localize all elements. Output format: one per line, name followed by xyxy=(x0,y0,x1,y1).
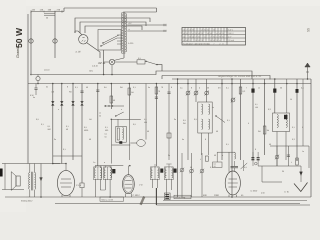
svg-text:50: 50 xyxy=(147,130,149,133)
wire heater run xyxy=(123,54,125,58)
resistor R8 xyxy=(263,126,266,134)
svg-text:Netz: Netz xyxy=(89,70,93,73)
capacitor C9 blob xyxy=(296,89,299,93)
svg-text:a. W.: a. W. xyxy=(76,51,82,54)
IFT1 coil B xyxy=(202,119,203,129)
page number 55 xyxy=(306,28,310,32)
svg-text:280 V: 280 V xyxy=(228,32,234,35)
wire v73 xyxy=(72,84,74,161)
resistor R4 xyxy=(110,96,113,103)
wire v142 xyxy=(145,84,147,140)
wire v129 low xyxy=(128,119,130,160)
wire rect drop xyxy=(111,65,113,75)
wire mains top run xyxy=(64,7,157,9)
antenna symbol xyxy=(305,63,310,67)
svg-text:6,3 V: 6,3 V xyxy=(228,29,233,32)
pilot lamp La xyxy=(79,35,88,44)
tube data table xyxy=(182,28,246,46)
svg-text:50: 50 xyxy=(113,99,115,102)
wire v217 xyxy=(216,152,218,162)
wire bottom mid xyxy=(163,200,307,202)
svg-text:0,5: 0,5 xyxy=(138,57,141,60)
svg-text:300: 300 xyxy=(144,121,147,124)
trimmer CT1 xyxy=(187,79,189,160)
svg-text:U 4012: U 4012 xyxy=(251,190,259,193)
resistor R5 xyxy=(128,88,131,95)
capacitor C7 blob xyxy=(273,89,276,93)
wire v274 xyxy=(274,79,276,113)
wire ground rail xyxy=(28,83,311,85)
wire bottom chassis xyxy=(55,203,300,205)
svg-text:x: x xyxy=(192,32,193,35)
svg-text:Spannungen gem. geg. Chassis: Spannungen gem. geg. Chassis xyxy=(183,43,210,46)
capacitor C3 xyxy=(96,89,99,91)
coil L3 box xyxy=(150,167,159,180)
svg-text:50: 50 xyxy=(105,136,107,139)
speaker LS xyxy=(16,176,20,186)
coil L1 xyxy=(94,168,95,178)
svg-text:8: 8 xyxy=(171,86,172,89)
capacitor blob osc xyxy=(119,141,122,144)
capacitor C8 blob xyxy=(284,115,287,119)
capacitor C2 xyxy=(80,90,83,92)
padder capacitors xyxy=(51,101,54,103)
svg-text:Netz u. 10 W: Netz u. 10 W xyxy=(102,198,114,201)
svg-text:w.b.10: w.b.10 xyxy=(92,65,99,68)
capacitor C13 blob xyxy=(174,169,177,173)
resistor R10 xyxy=(205,156,208,161)
svg-text:100: 100 xyxy=(255,106,258,109)
svg-text:50: 50 xyxy=(89,138,91,141)
wire L4 legs xyxy=(165,179,167,197)
fuse Si1 xyxy=(29,39,33,43)
trimmer bottom B xyxy=(191,153,193,197)
wire IFT1 drops xyxy=(201,133,203,155)
grid cap plates xyxy=(231,165,239,167)
transformer secondary stub a xyxy=(127,24,166,26)
wire mains riser xyxy=(63,8,65,12)
wire h189 xyxy=(2,189,5,191)
wire v253 xyxy=(252,79,254,160)
svg-text:0,1: 0,1 xyxy=(66,125,69,128)
svg-text:50: 50 xyxy=(269,143,271,146)
svg-text:0,1: 0,1 xyxy=(75,86,78,89)
svg-text:0,1: 0,1 xyxy=(105,126,108,129)
wire v97 xyxy=(97,84,99,167)
wire lamp to loop xyxy=(75,31,82,35)
wire lamp to switch xyxy=(87,43,100,58)
boxed label Netz xyxy=(100,197,124,201)
wire transformer top feed xyxy=(140,11,157,13)
tube V2 CL4 xyxy=(57,170,74,195)
wire tap loop 1 xyxy=(75,18,150,33)
capacitor C10 xyxy=(287,146,289,166)
svg-text:50: 50 xyxy=(86,86,88,89)
svg-text:8: 8 xyxy=(67,86,68,89)
terminal riser xyxy=(155,188,157,205)
trimmer CT4 xyxy=(231,98,235,102)
switch S1 levers xyxy=(101,38,117,46)
wire rect left xyxy=(104,61,110,63)
box on v167 xyxy=(167,133,171,138)
svg-text:0,5: 0,5 xyxy=(194,118,197,121)
bottom smudge artifact xyxy=(139,196,145,205)
wire left vertical bus x28 xyxy=(27,14,29,164)
wire v264 xyxy=(264,79,266,155)
band switch cluster xyxy=(104,105,124,107)
wire v82 xyxy=(81,84,83,184)
fuse Si2 xyxy=(53,39,57,43)
svg-text:2: 2 xyxy=(122,131,123,134)
wire v177 xyxy=(177,79,179,197)
wire OT legs xyxy=(29,164,31,173)
svg-text:1M: 1M xyxy=(131,91,134,94)
svg-text:50: 50 xyxy=(290,98,292,101)
wire to rails xyxy=(157,65,162,71)
svg-text:0,1: 0,1 xyxy=(210,166,213,169)
IF transformer T1 box xyxy=(198,102,212,133)
svg-text:8: 8 xyxy=(191,87,192,90)
capacitor pair A xyxy=(251,157,254,158)
can filter xyxy=(137,140,146,147)
wire grid bus xyxy=(172,78,311,80)
capacitor C5 xyxy=(167,91,170,93)
coil L4 xyxy=(165,168,166,178)
wire h145 xyxy=(112,144,131,146)
wire h156 xyxy=(53,155,82,157)
svg-text:b: b xyxy=(222,154,223,157)
wire v297 xyxy=(296,79,298,160)
svg-text:5n: 5n xyxy=(182,138,184,141)
svg-text:20 mA: 20 mA xyxy=(228,39,234,42)
output transformer Tr2 core xyxy=(31,172,33,191)
svg-text:C 4012: C 4012 xyxy=(133,194,141,197)
svg-text:0,5: 0,5 xyxy=(133,123,136,126)
svg-text:x: x xyxy=(219,39,220,42)
svg-text:50 W: 50 W xyxy=(14,27,24,48)
capacitor pair B xyxy=(257,157,260,158)
pickup V symbol xyxy=(294,183,308,192)
transformer secondary stub b xyxy=(127,30,166,32)
resistor R6 xyxy=(155,87,158,94)
svg-text:0,1: 0,1 xyxy=(48,125,51,128)
svg-text:2n: 2n xyxy=(174,118,176,121)
IFT1 coil A xyxy=(202,104,203,114)
svg-text:Ein u. Ausg.: Ein u. Ausg. xyxy=(176,196,187,199)
mains row ticks xyxy=(30,10,32,12)
coil L2 xyxy=(104,168,105,178)
svg-text:1n: 1n xyxy=(258,87,260,90)
capacitor C11 blob xyxy=(112,169,115,173)
svg-text:1n: 1n xyxy=(99,112,101,115)
small circle contact xyxy=(255,162,258,165)
wire h152 xyxy=(217,151,235,153)
wire v286 xyxy=(286,79,288,113)
svg-text:x: x xyxy=(216,32,217,35)
trimmer CT2 xyxy=(195,79,197,102)
margin title Graetz 50 W xyxy=(14,27,24,58)
trimmer bottom C xyxy=(201,153,203,197)
svg-text:50: 50 xyxy=(214,154,216,157)
svg-text:0,1: 0,1 xyxy=(226,143,229,146)
svg-text:0,1: 0,1 xyxy=(105,133,108,136)
wire B+ rail upper xyxy=(32,71,252,79)
svg-text:0,1: 0,1 xyxy=(227,119,230,122)
wire mains row xyxy=(31,11,64,13)
svg-text:50: 50 xyxy=(99,115,101,118)
resistor box v82 xyxy=(80,183,84,188)
svg-text:0,1: 0,1 xyxy=(255,103,258,106)
svg-text:Abgleichfolge: W. Kreise 468 k: Abgleichfolge: W. Kreise 468 kHz a. W. xyxy=(217,75,262,78)
wire rect right xyxy=(115,61,137,63)
svg-text:50: 50 xyxy=(66,128,68,131)
trimmer CT5 xyxy=(276,146,278,166)
resistor R9 xyxy=(296,158,299,165)
svg-text:1M: 1M xyxy=(267,129,270,132)
voltage selector links xyxy=(44,12,55,14)
svg-text:0,1: 0,1 xyxy=(292,126,295,129)
svg-text:5n: 5n xyxy=(46,86,48,89)
rectifier V1 xyxy=(109,59,114,64)
svg-text:a.W.: a.W. xyxy=(261,192,266,195)
svg-text:0,5: 0,5 xyxy=(36,118,39,121)
arrow contact xyxy=(300,172,303,176)
terminal box xyxy=(164,193,170,200)
output transformer Tr2 coils xyxy=(29,173,30,190)
svg-text:5 W: 5 W xyxy=(30,94,34,97)
wire h165 xyxy=(95,165,123,167)
svg-text:55: 55 xyxy=(306,28,310,32)
svg-text:2n: 2n xyxy=(212,106,214,109)
coil L2 box xyxy=(103,167,111,180)
wire v232 xyxy=(231,79,233,197)
svg-text:5: 5 xyxy=(248,122,249,125)
switch S3 xyxy=(216,116,225,123)
switch S2 xyxy=(146,61,157,64)
svg-text:0,1: 0,1 xyxy=(301,87,304,90)
transformer Tr1 core xyxy=(122,12,124,54)
svg-text:2M: 2M xyxy=(120,86,123,89)
wire v167 xyxy=(168,84,170,161)
wire v129 xyxy=(128,84,130,120)
svg-text:0,2: 0,2 xyxy=(268,108,271,111)
svg-text:0,1: 0,1 xyxy=(63,148,66,151)
svg-text:0,3: 0,3 xyxy=(243,90,246,93)
svg-text:2n: 2n xyxy=(54,138,56,141)
switch tap stubs xyxy=(117,34,122,36)
svg-text:500: 500 xyxy=(48,128,51,131)
svg-text:8: 8 xyxy=(205,138,206,141)
wire bottom return xyxy=(5,196,311,198)
resistor R7 xyxy=(239,87,242,94)
svg-text:2: 2 xyxy=(291,161,292,164)
svg-text:b: b xyxy=(199,87,200,90)
svg-text:7: 7 xyxy=(246,87,247,90)
svg-text:5000: 5000 xyxy=(84,129,88,132)
wire v61 xyxy=(61,84,63,164)
svg-text:50: 50 xyxy=(214,165,216,168)
IF transformer T2 xyxy=(273,113,290,132)
svg-text:0,1: 0,1 xyxy=(226,87,229,90)
fuse holder xyxy=(36,77,40,81)
svg-text:5: 5 xyxy=(302,126,303,129)
svg-text:C L 4: C L 4 xyxy=(76,184,82,187)
wire tap loop 2 xyxy=(80,22,146,33)
svg-text:2M: 2M xyxy=(258,130,261,133)
svg-text:0,1: 0,1 xyxy=(133,86,136,89)
capacitor C4 xyxy=(155,96,158,98)
svg-text:0,3: 0,3 xyxy=(292,138,295,141)
wire h146 xyxy=(270,145,309,147)
svg-text:2n: 2n xyxy=(168,154,170,157)
svg-text:2M: 2M xyxy=(183,122,186,125)
wire speaker left xyxy=(5,164,24,190)
svg-text:1 W: 1 W xyxy=(139,184,143,187)
wire h166 xyxy=(258,165,301,167)
wire v52 xyxy=(52,84,54,164)
capacitor C1 xyxy=(35,84,37,89)
wire right edge vertical xyxy=(310,79,312,197)
svg-text:x: x xyxy=(204,35,205,38)
wire v303 xyxy=(302,79,304,146)
wire chassis low xyxy=(156,204,310,206)
junction dots xyxy=(37,83,39,85)
transformer Tr1 windings xyxy=(121,13,122,54)
wire h119 xyxy=(111,118,141,120)
svg-text:25: 25 xyxy=(282,170,284,173)
trimmer CT3 xyxy=(206,79,208,102)
boxed label mid4 xyxy=(213,162,222,167)
svg-text:50: 50 xyxy=(216,130,218,133)
wire mains drop A xyxy=(30,12,32,75)
svg-text:50: 50 xyxy=(207,87,209,90)
svg-text:6: 6 xyxy=(255,148,256,151)
tube V3 CBL1 xyxy=(122,175,134,194)
svg-text:50: 50 xyxy=(46,17,48,20)
wire switch drop xyxy=(103,50,105,75)
wire transformer feed drop xyxy=(156,8,158,12)
resistor R1 xyxy=(137,60,145,64)
wire h182 xyxy=(262,181,282,183)
wire v111 xyxy=(110,84,112,110)
svg-text:500: 500 xyxy=(105,129,108,132)
svg-text:b 220: b 220 xyxy=(128,42,134,45)
switch S1 box xyxy=(98,30,121,51)
svg-text:1M: 1M xyxy=(89,118,92,121)
svg-text:50: 50 xyxy=(190,166,192,169)
wire mains drop B xyxy=(54,12,56,59)
wire v118 xyxy=(117,119,119,126)
svg-text:0,1: 0,1 xyxy=(144,118,147,121)
wire speaker top xyxy=(2,163,60,165)
svg-text:w.b.10: w.b.10 xyxy=(44,69,49,72)
svg-text:b. W.: b. W. xyxy=(285,191,290,194)
wire v222 xyxy=(221,79,223,160)
wire tube2 top xyxy=(53,163,66,165)
wire coil legs xyxy=(95,166,97,168)
left edge black registration mark xyxy=(0,169,3,177)
svg-text:70: 70 xyxy=(161,86,163,89)
svg-text:50: 50 xyxy=(280,87,282,90)
coil L3 xyxy=(151,168,152,178)
wire v156 xyxy=(155,84,157,167)
svg-text:0,5: 0,5 xyxy=(244,166,247,169)
svg-text:0,1: 0,1 xyxy=(41,123,44,126)
trimmer arrow right xyxy=(241,163,248,169)
coil L1 box xyxy=(94,167,102,180)
wire IFT2 drops xyxy=(276,132,278,167)
oscillator coil box xyxy=(116,126,127,142)
wire L3 legs xyxy=(151,179,153,188)
svg-text:5n: 5n xyxy=(148,86,150,89)
svg-text:Cu: Cu xyxy=(93,161,95,164)
trimmer bottom A xyxy=(181,153,183,197)
coil L4 box xyxy=(164,167,173,180)
wire AVC rail xyxy=(162,76,270,80)
svg-text:AZ 11: AZ 11 xyxy=(97,61,106,65)
svg-text:a: a xyxy=(104,162,105,164)
svg-text:2: 2 xyxy=(200,158,201,161)
svg-text:Körting 5012: Körting 5012 xyxy=(21,199,33,202)
tube V4 xyxy=(225,171,240,195)
svg-text:0,5: 0,5 xyxy=(183,119,186,122)
svg-text:1n: 1n xyxy=(302,150,304,153)
diode D1 xyxy=(40,164,42,198)
svg-text:2000: 2000 xyxy=(214,194,220,197)
capacitor C12 blob xyxy=(160,169,163,173)
capacitor C6 blob xyxy=(251,89,254,93)
grid coil xyxy=(235,153,236,160)
boxed label bottom xyxy=(174,195,191,198)
svg-text:70: 70 xyxy=(158,90,160,93)
wire v240 xyxy=(240,79,242,160)
wire tap loop 3 xyxy=(85,26,142,33)
svg-text:0,5: 0,5 xyxy=(84,126,87,129)
